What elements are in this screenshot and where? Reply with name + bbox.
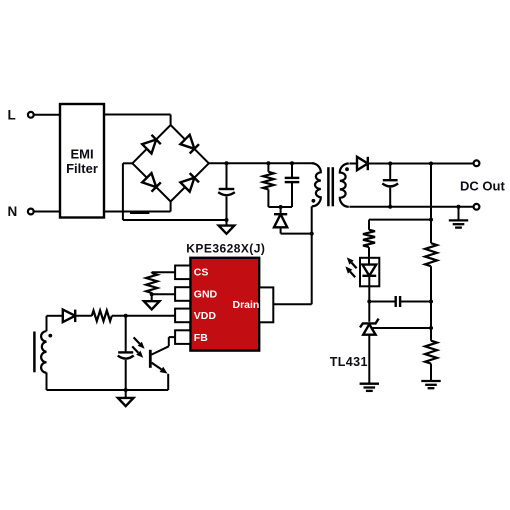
wire divider middle segment (430, 266, 432, 341)
ground bulk capacitor (219, 220, 235, 234)
op-amp U1 KPE3628X controller body (190, 258, 259, 351)
capacitor snubber C (285, 163, 300, 207)
diode bridge D2 (top-right edge) (180, 135, 199, 154)
node L (line input terminal) (28, 112, 34, 118)
wire secondary top to output diode (349, 163, 356, 165)
transformer T1 primary polarity dot (312, 199, 316, 203)
wire aux winding bottom (46, 373, 48, 391)
wire FB pin to opto collector (152, 337, 176, 355)
svg-text:GND: GND (194, 288, 218, 300)
wire divider to ground (430, 364, 432, 381)
ground CS/GND pin (144, 294, 160, 309)
svg-text:Filter: Filter (66, 161, 98, 176)
node drain junction (310, 232, 314, 236)
svg-text:Drain: Drain (233, 299, 260, 311)
node CS resistor / GND junction (150, 292, 154, 296)
transistor opto emitter with arrow (152, 363, 168, 374)
node snubber diode junction (279, 205, 283, 209)
wire opto emitter to rail (167, 374, 169, 390)
wire TL431 anode to ground (368, 335, 370, 384)
node DC Out - terminal (474, 204, 480, 210)
svg-text:KPE3628X(J): KPE3628X(J) (186, 241, 265, 255)
svg-text:DC Out: DC Out (460, 179, 505, 194)
ground DC output (earth) (449, 207, 468, 228)
svg-text:FB: FB (194, 332, 208, 344)
diode bridge D1 (left-top edge) (142, 135, 161, 154)
wire opto LED to TL431 (368, 276, 370, 322)
label pin VDD (194, 310, 217, 322)
transformer aux core line (33, 332, 36, 373)
wire bridge negative to ground rail (123, 163, 227, 220)
wire EMI filter to bridge top (L) (104, 115, 171, 127)
wire bridge diamond edges (132, 125, 208, 202)
wire primary bottom to drain junction (311, 206, 313, 233)
wire branch to opto LED resistor (369, 219, 431, 221)
svg-text:CS: CS (194, 267, 209, 279)
node divider to TL431 ref (429, 326, 433, 330)
node VDD capacitor top (124, 314, 128, 318)
diode bridge D4 (bottom-right edge) (180, 173, 199, 192)
pin GND box (175, 287, 190, 301)
wire divider upper segment (430, 164, 432, 244)
pin VDD box (175, 309, 190, 323)
node opto LED / comp cap junction (367, 300, 371, 304)
node snubber capacitor top (290, 161, 294, 165)
label pin FB (194, 332, 208, 344)
resistor divider upper R (425, 243, 437, 266)
pin FB box (175, 330, 190, 344)
diode snubber clamp D (pointing up) (274, 207, 287, 234)
label KPE3628X(J) (186, 241, 265, 255)
svg-text:N: N (8, 204, 18, 219)
label L (8, 108, 16, 123)
wire snubber bottom (268, 206, 292, 208)
resistor opto LED series R (363, 230, 375, 247)
ground divider (earth) (421, 381, 440, 388)
wire L terminal to EMI filter (34, 114, 60, 116)
transformer T1 secondary winding (340, 164, 349, 207)
wire EMI filter to bridge bottom (N) (104, 201, 171, 212)
wire branch down to LED resistor (368, 220, 370, 230)
resistor CS sense R (146, 272, 157, 294)
optocoupler LED box (360, 258, 379, 287)
node N (neutral input terminal) (28, 209, 34, 215)
wire output diode to DC Out + (369, 163, 474, 165)
opto reception arrows (132, 337, 144, 357)
TL431 U2 shunt regulator (360, 319, 379, 335)
svg-text:VDD: VDD (194, 310, 217, 322)
node aux ground junction (124, 388, 128, 392)
wire resistor to opto LED (368, 247, 370, 265)
wire aux resistor to VDD pin (112, 315, 175, 317)
capacitor bulk C1 (218, 163, 235, 220)
diode bridge D3 (left-bottom edge) (142, 173, 161, 192)
transistor opto Q (base bar) (149, 350, 152, 368)
label N (8, 204, 18, 219)
wire TL431 ref to divider (373, 327, 431, 329)
capacitor VDD C3 (118, 316, 134, 390)
transformer T1 primary winding (312, 163, 321, 206)
transformer T1 aux winding (41, 316, 46, 373)
wire CS pin (152, 271, 175, 273)
node output capacitor bottom (388, 205, 392, 209)
svg-text:L: L (8, 108, 16, 123)
label pin CS (194, 267, 209, 279)
EMI filter block (60, 104, 104, 218)
pin Drain box (259, 287, 273, 322)
resistor divider lower R (425, 341, 437, 364)
capacitor compensation C (horizontal) (369, 296, 431, 307)
label pin GND (194, 288, 218, 300)
transformer aux polarity dot (48, 334, 52, 338)
node snubber resistor top (266, 161, 270, 165)
diode aux rectifier D3 (63, 310, 75, 323)
pin CS box (175, 266, 190, 280)
diode output rectifier D2 (357, 157, 368, 170)
transformer T1 secondary polarity dot (345, 167, 349, 171)
wire overlap segment on N line (130, 211, 149, 214)
node divider branch to opto LED (429, 218, 433, 222)
transformer T1 core (328, 167, 332, 206)
resistor snubber R (263, 163, 274, 207)
wire aux diode to resistor (76, 315, 92, 317)
wire snubber diode to drain node (281, 233, 312, 235)
node DC Out + terminal (474, 160, 480, 166)
wire N terminal to EMI filter (34, 211, 60, 213)
wire aux bottom rail (47, 389, 169, 391)
node HV rail at bulk capacitor (225, 161, 229, 165)
capacitor output C2 (382, 164, 398, 207)
opto LED emission arrows (345, 257, 356, 277)
svg-text:TL431: TL431 (330, 355, 368, 369)
diode opto LED (pointing down) (362, 265, 376, 276)
label DC Out (460, 179, 505, 194)
wire secondary bottom rail (349, 206, 473, 208)
ground aux (V) (118, 390, 134, 406)
node output capacitor top (388, 162, 392, 166)
label TL431 (330, 355, 368, 369)
label pin Drain (233, 299, 260, 311)
ground TL431 (earth) (360, 384, 379, 391)
wire Drain pin to primary (273, 234, 311, 305)
node output ground junction (457, 205, 461, 209)
wire GND pin (152, 293, 175, 295)
wire VDD line left segment (47, 315, 63, 317)
resistor aux R (horizontal) (92, 311, 112, 322)
node divider to compensation cap (429, 300, 433, 304)
node bulk capacitor ground junction (225, 218, 229, 222)
wire bridge positive to HV rail (209, 162, 315, 164)
svg-text:EMI: EMI (70, 146, 93, 161)
node divider tap on + rail (429, 162, 433, 166)
